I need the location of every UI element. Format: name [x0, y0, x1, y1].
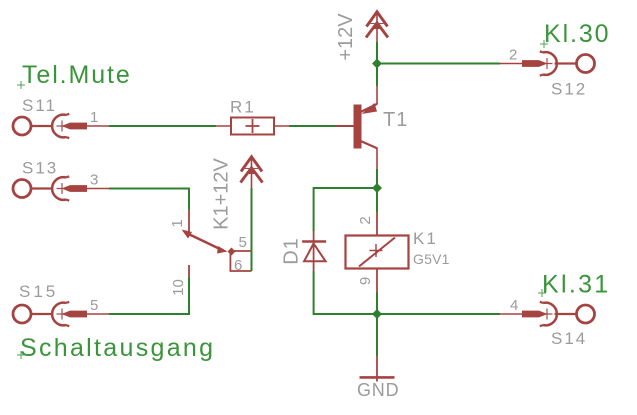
- wire +12V to node A: [376, 42, 378, 64]
- svg-text:K1+12V: K1+12V: [210, 157, 232, 229]
- wire R1 to T1 base: [289, 125, 336, 127]
- svg-text:+12V: +12V: [335, 13, 357, 61]
- svg-text:S13: S13: [22, 159, 58, 178]
- power +12V: [335, 11, 388, 61]
- connector S13: [13, 159, 109, 201]
- svg-text:10: 10: [170, 279, 187, 296]
- svg-text:5: 5: [239, 234, 247, 251]
- svg-text:2: 2: [357, 216, 374, 224]
- relay coil K1: [346, 212, 450, 292]
- node B junction: [372, 183, 382, 193]
- label Kl.30: [540, 20, 610, 48]
- wire K1+12V to contact pin5: [251, 188, 253, 271]
- svg-text:S11: S11: [22, 96, 57, 115]
- svg-text:D1: D1: [280, 237, 302, 265]
- resistor R1: [216, 98, 289, 135]
- wire node A to S12: [377, 63, 500, 65]
- svg-text:4: 4: [510, 297, 518, 314]
- wire node A to T1 emitter: [376, 64, 378, 87]
- svg-text:G5V1: G5V1: [413, 251, 450, 267]
- node C junction: [372, 309, 382, 319]
- wire relay pin9 to node C: [376, 292, 378, 314]
- svg-text:9: 9: [357, 277, 374, 285]
- svg-text:S15: S15: [19, 282, 58, 301]
- connector S14: [500, 297, 595, 348]
- svg-text:Kl.31: Kl.31: [542, 271, 610, 299]
- label Tel.Mute: [17, 61, 132, 89]
- svg-text:3: 3: [90, 172, 98, 189]
- relay contact K1: [169, 210, 252, 296]
- wire contact pin10 to S15: [109, 277, 189, 314]
- svg-text:S14: S14: [551, 329, 587, 348]
- svg-text:Schaltausgang: Schaltausgang: [20, 334, 215, 362]
- svg-text:2: 2: [509, 47, 517, 64]
- connector S15: [13, 282, 109, 326]
- power K1+12V: [210, 156, 262, 230]
- wire node B to D1 top: [314, 188, 377, 231]
- svg-text:GND: GND: [357, 380, 399, 400]
- ground GND: [357, 356, 399, 400]
- label Schaltausgang: [17, 334, 215, 362]
- wire D1 bottom to node C: [314, 271, 377, 314]
- wire node C to GND: [376, 314, 378, 356]
- svg-text:T1: T1: [383, 109, 408, 131]
- node A junction: [372, 59, 382, 69]
- connector S12: [500, 47, 595, 99]
- svg-text:K1: K1: [413, 229, 438, 248]
- svg-text:S12: S12: [551, 80, 587, 99]
- svg-text:6: 6: [234, 257, 242, 274]
- svg-text:R1: R1: [230, 98, 256, 117]
- wire S11 to R1: [109, 125, 216, 127]
- svg-text:Kl.30: Kl.30: [544, 20, 610, 48]
- svg-text:1: 1: [169, 219, 186, 227]
- svg-text:Tel.Mute: Tel.Mute: [22, 61, 132, 89]
- svg-text:5: 5: [90, 297, 98, 314]
- wire node C to S14: [377, 313, 500, 315]
- transistor T1: [336, 86, 408, 169]
- svg-text:1: 1: [90, 109, 98, 126]
- wire T1 collector to node B: [376, 169, 378, 188]
- wire S13 to contact pin1: [109, 189, 189, 211]
- diode D1: [280, 231, 326, 271]
- label Kl.31: [538, 271, 610, 299]
- connector S11: [13, 96, 109, 138]
- wire node B to relay pin2: [376, 188, 378, 212]
